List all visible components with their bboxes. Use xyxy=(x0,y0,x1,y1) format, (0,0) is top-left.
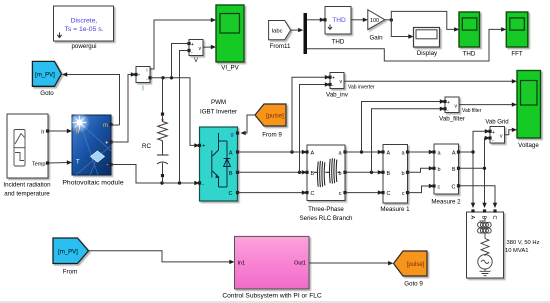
wire PV m to goto riser xyxy=(111,124,120,126)
wire Vab inverter to voltage scope xyxy=(344,80,513,82)
svg-text:+: + xyxy=(105,141,109,147)
svg-text:B: B xyxy=(229,171,233,177)
svg-text:Photovoltaic module: Photovoltaic module xyxy=(62,180,123,187)
svg-text:C: C xyxy=(452,184,456,190)
wire PV plus to I block xyxy=(111,75,132,143)
wire THD block to gain xyxy=(351,19,364,21)
control subsystem block xyxy=(222,236,322,299)
powergui block xyxy=(54,6,114,50)
svg-text:Ir: Ir xyxy=(41,130,45,136)
svg-text:B: B xyxy=(452,167,456,173)
IGBT + diode icon xyxy=(212,133,231,187)
svg-text:Series RLC Branch: Series RLC Branch xyxy=(300,215,354,222)
THD computation block xyxy=(323,7,351,46)
svg-text:Iabc: Iabc xyxy=(272,29,283,35)
gain block 100 xyxy=(368,10,385,42)
wire inverter A to RLC xyxy=(238,151,304,153)
svg-text:[m_PV]: [m_PV] xyxy=(58,249,78,255)
svg-text:THD: THD xyxy=(332,17,346,24)
svg-text:+: + xyxy=(202,144,205,150)
svg-text:THD: THD xyxy=(332,39,345,46)
display block xyxy=(414,28,440,58)
from tag [m_PV] bottom xyxy=(53,238,89,276)
svg-text:b: b xyxy=(338,171,341,177)
wire RLC c to measure1 xyxy=(345,192,379,194)
wire Vab filter to voltage scope xyxy=(459,104,513,106)
wire Temp xyxy=(49,160,72,164)
svg-text:Voltage: Voltage xyxy=(518,142,539,149)
measure 1 block xyxy=(380,145,410,214)
svg-text:Measure 1: Measure 1 xyxy=(380,206,410,213)
voltage measurement V block xyxy=(187,40,203,65)
wire RLC a to measure1 xyxy=(345,151,379,153)
AC source xyxy=(478,255,492,269)
svg-text:Display: Display xyxy=(417,50,438,57)
wire riser b to Vab_filter minus xyxy=(372,109,442,173)
svg-text:Temp: Temp xyxy=(32,162,46,168)
wire gain branch xyxy=(385,19,392,21)
wire measure1 b to measure2 b xyxy=(408,168,431,172)
svg-text:powergui: powergui xyxy=(71,43,96,50)
svg-text:10 MVA1: 10 MVA1 xyxy=(505,248,528,254)
Vab_inv measurement block xyxy=(326,73,349,99)
wire V plus down to rail xyxy=(172,44,190,77)
inductor coil xyxy=(478,218,493,276)
wire Iabc to selector xyxy=(291,29,298,31)
wire selector to FFT scope xyxy=(307,29,502,61)
wire to display xyxy=(391,20,409,37)
wire selector to THD block xyxy=(307,19,321,21)
svg-text:Goto 9: Goto 9 xyxy=(404,281,423,288)
svg-text:Vab inverter: Vab inverter xyxy=(348,85,375,91)
svg-text:RC: RC xyxy=(142,143,151,150)
wire from to control subsystem xyxy=(89,251,231,262)
wire riser A to Vab_inv plus xyxy=(292,77,326,152)
from tag Iabc From11 xyxy=(269,21,291,51)
svg-text:[pulse]: [pulse] xyxy=(407,262,425,268)
resistor xyxy=(481,239,489,257)
svg-text:From: From xyxy=(63,269,77,276)
svg-text:Incident radiation: Incident radiation xyxy=(3,182,51,189)
wire pulse to g port xyxy=(242,115,255,133)
wire V minus down to bottom rail xyxy=(180,51,190,182)
wire Vab Grid to voltage scope xyxy=(505,130,514,135)
svg-text:From 9: From 9 xyxy=(262,132,282,139)
measure 2 block xyxy=(431,144,461,206)
wire control subsystem to goto xyxy=(309,262,389,264)
svg-text:Vab Grid: Vab Grid xyxy=(485,120,508,126)
current measurement I block xyxy=(134,67,151,93)
THD scope xyxy=(459,12,480,58)
svg-text:C: C xyxy=(491,216,497,220)
scope VI_PV xyxy=(216,5,244,72)
incident radiation source block xyxy=(3,114,51,198)
wire measure1 a to measure2 a xyxy=(408,151,431,153)
svg-text:b: b xyxy=(438,167,441,173)
bottom window border line xyxy=(0,301,550,303)
bus selector bar xyxy=(304,13,308,54)
svg-text:IGBT Inverter: IGBT Inverter xyxy=(200,109,237,116)
RC branch xyxy=(142,78,168,183)
svg-text:B: B xyxy=(481,216,487,220)
svg-text:i: i xyxy=(147,67,148,72)
svg-text:-: - xyxy=(202,182,204,188)
svg-text:Goto: Goto xyxy=(40,90,54,97)
svg-text:Vab_filter: Vab_filter xyxy=(439,116,465,123)
wire measure1 c to measure2 c xyxy=(408,186,431,193)
svg-text:Vab_inv: Vab_inv xyxy=(326,92,349,99)
FFT scope xyxy=(506,12,528,58)
svg-text:C: C xyxy=(311,191,315,197)
svg-text:c: c xyxy=(339,191,342,197)
svg-text:Vab filter: Vab filter xyxy=(462,108,482,114)
svg-text:380 V, 50 Hz: 380 V, 50 Hz xyxy=(507,240,540,246)
svg-text:PWM: PWM xyxy=(211,99,226,106)
svg-text:-: - xyxy=(107,163,109,169)
wire to THD scope xyxy=(391,11,455,29)
svg-text:+: + xyxy=(492,130,495,136)
svg-text:From11: From11 xyxy=(270,43,291,50)
wire PV minus to bottom rail xyxy=(111,165,195,184)
svg-text:T: T xyxy=(76,160,80,166)
junction dots bottom rail xyxy=(160,181,163,184)
svg-text:Ts = 1e-05 s.: Ts = 1e-05 s. xyxy=(64,26,103,33)
svg-text:B: B xyxy=(387,171,391,177)
svg-text:C: C xyxy=(387,191,391,197)
three-phase source block xyxy=(467,209,540,278)
from tag [pulse] From 9 xyxy=(255,104,286,139)
svg-text:Gain: Gain xyxy=(369,35,383,42)
svg-text:[m_PV]: [m_PV] xyxy=(35,72,55,78)
svg-text:A: A xyxy=(311,151,315,157)
wire riser B to Vab_inv minus xyxy=(300,85,327,173)
PWM IGBT inverter block xyxy=(198,99,239,201)
svg-text:m: m xyxy=(103,123,108,129)
wire inverter B to RLC xyxy=(238,171,304,173)
wire m_PV goto xyxy=(62,72,120,125)
svg-text:In1: In1 xyxy=(238,260,246,266)
ground xyxy=(480,269,491,276)
wire I i-signal to scope xyxy=(150,20,212,69)
svg-text:VI_PV: VI_PV xyxy=(221,65,239,72)
voltage scope xyxy=(517,71,541,150)
svg-text:b: b xyxy=(401,171,404,177)
svg-text:Control Subsystem with PI or F: Control Subsystem with PI or FLC xyxy=(222,293,322,300)
coil icons xyxy=(314,158,341,187)
svg-text:Ir: Ir xyxy=(76,130,80,136)
svg-text:100: 100 xyxy=(370,18,379,24)
wire V out to scope xyxy=(203,46,212,48)
wire riser a to Vab_filter plus xyxy=(362,102,442,153)
wire Ir xyxy=(49,129,72,133)
wire inverter C to RLC xyxy=(238,192,304,194)
svg-text:FFT: FFT xyxy=(511,51,523,58)
svg-text:[pulse]: [pulse] xyxy=(266,114,284,120)
svg-text:c: c xyxy=(402,191,405,197)
goto tag [m_PV] top xyxy=(32,61,61,97)
three-phase series RLC branch block xyxy=(300,145,354,222)
wire RLC b to measure1 xyxy=(345,171,379,173)
svg-text:Measure 2: Measure 2 xyxy=(431,199,461,206)
wire measure2 A to source A and Vab Grid plus xyxy=(459,152,474,204)
svg-text:I: I xyxy=(142,86,144,93)
svg-text:A: A xyxy=(452,151,456,157)
svg-text:c: c xyxy=(438,185,441,191)
svg-text:+: + xyxy=(191,42,194,48)
Vab_filter measurement block xyxy=(439,97,465,123)
svg-text:A: A xyxy=(387,151,391,157)
svg-text:Out1: Out1 xyxy=(294,260,306,266)
svg-text:+: + xyxy=(332,76,335,82)
Vab Grid measurement block xyxy=(485,120,508,144)
svg-text:+: + xyxy=(447,100,450,106)
svg-text:Three-Phase: Three-Phase xyxy=(308,206,344,213)
svg-text:B: B xyxy=(311,171,315,177)
svg-text:C: C xyxy=(229,191,233,197)
svg-text:and temperature: and temperature xyxy=(4,191,50,198)
svg-text:g: g xyxy=(230,132,233,138)
svg-text:Discrete,: Discrete, xyxy=(71,18,98,25)
svg-text:A: A xyxy=(229,151,233,157)
wire measure2 B to source B and Vab Grid minus xyxy=(459,168,485,204)
svg-text:A: A xyxy=(469,216,475,220)
svg-text:THD: THD xyxy=(463,51,476,58)
goto tag [pulse] Goto 9 xyxy=(394,251,428,288)
photovoltaic module block xyxy=(62,112,123,187)
wire I out to inverter plus xyxy=(150,78,195,146)
wire measure2 C to source C xyxy=(459,186,496,204)
